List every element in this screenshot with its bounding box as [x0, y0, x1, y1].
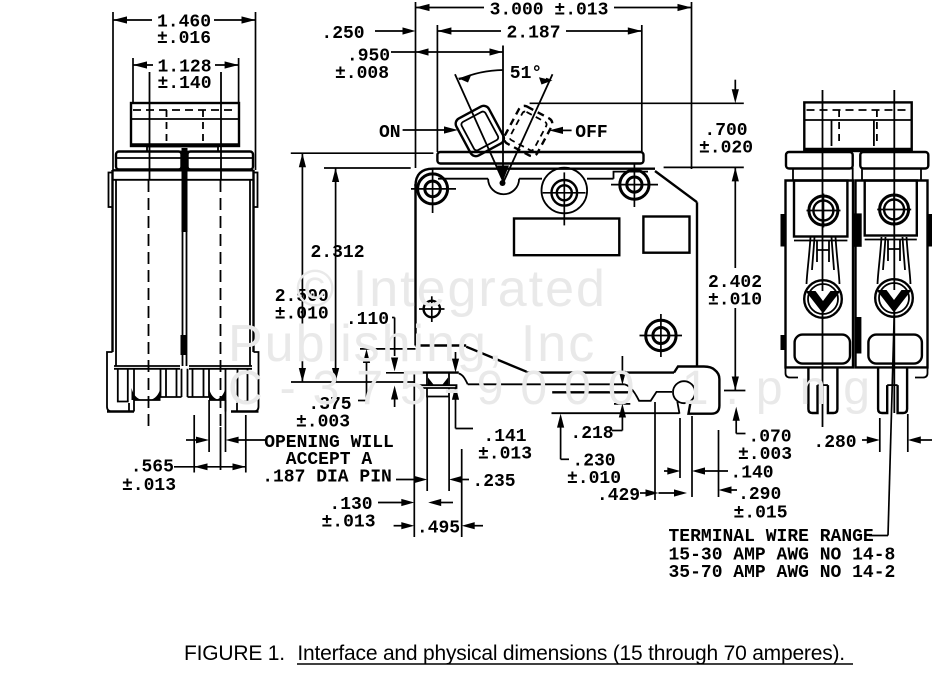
- body left wall: [414, 184, 416, 346]
- pole2 arch fillet left: [209, 388, 219, 400]
- terminal block pole2: [865, 181, 917, 236]
- center foot lower stem: [427, 388, 449, 397]
- nameplate rect left: [514, 219, 619, 256]
- 51 degree arc right: [546, 79, 551, 81]
- ref line cover top extended left: [291, 152, 434, 154]
- ref line toggle top extended right: [530, 102, 744, 104]
- dim .141 arrows at x455: [452, 359, 459, 373]
- svg-text:3.000 ±.013: 3.000 ±.013: [490, 1, 609, 21]
- handle pedestal: [147, 147, 218, 152]
- dim .280 extension lines: [879, 418, 881, 452]
- clamp triangle pole2: [877, 290, 912, 313]
- svg-text:±.015: ±.015: [733, 504, 787, 524]
- dim .565 line and arrows: [174, 466, 246, 468]
- foot stem extension lines: [426, 397, 428, 491]
- dim .070 leader: [733, 407, 740, 421]
- cover bar: [437, 152, 643, 164]
- shelf lines pole1: [114, 365, 180, 367]
- terminal leader line up to clamp: [888, 312, 894, 536]
- second cap pole1: [793, 169, 853, 181]
- bottom shelf left: [416, 344, 467, 346]
- side tab right upper: [928, 214, 932, 247]
- handle mid line: [804, 119, 911, 121]
- handle inner verticals: [831, 120, 833, 146]
- dim 1.460 extension line right: [255, 12, 257, 170]
- dim .110 lower arrow: [391, 386, 398, 400]
- shelf ref line extended left: [360, 348, 416, 350]
- svg-text:ON: ON: [379, 123, 401, 143]
- body top edge with rounded corner: [416, 169, 656, 186]
- center foot stem: [427, 374, 449, 386]
- dim .218 down arrow: [621, 356, 623, 372]
- flange right extension line down: [461, 449, 463, 537]
- svg-text:±.008: ±.008: [335, 64, 389, 84]
- pole1 outer prong inner wall: [133, 369, 135, 412]
- dim 1.460 extension line left: [112, 12, 114, 170]
- cap pole2 (right view): [860, 152, 928, 169]
- svg-text:.187 DIA PIN: .187 DIA PIN: [262, 468, 392, 488]
- lower nameplate pole1: [795, 335, 850, 364]
- pole2 outer prong inner wall: [225, 369, 227, 412]
- second cap pole2: [862, 169, 921, 181]
- caption underline: [297, 663, 853, 665]
- pole2 arch bottom line: [209, 399, 226, 401]
- dim 2.187 ext left: [436, 25, 438, 152]
- middle hole: [552, 180, 578, 206]
- outer wall step right: [237, 352, 259, 412]
- svg-text:±.013: ±.013: [321, 513, 375, 533]
- opening dim arrows: [186, 439, 197, 441]
- block bottom line pole1: [794, 240, 847, 242]
- center divider feet blob: [181, 335, 187, 355]
- cap pole1 (right view): [786, 152, 853, 169]
- line C: [552, 391, 632, 393]
- handle bottom thick line: [131, 143, 239, 146]
- centerline bottom arrowhead: [497, 166, 509, 182]
- rail hook outline: [674, 367, 719, 414]
- divider bar lower: [855, 317, 861, 354]
- toggle handle (left view): [131, 103, 239, 146]
- dashed verticals inside handle: [166, 110, 168, 146]
- dip right extension line: [654, 402, 656, 500]
- hook right extension: [718, 430, 720, 497]
- pole2 inner prong: [188, 369, 210, 397]
- pole1 inner prong: [161, 369, 182, 397]
- hook slot left extension: [679, 418, 681, 478]
- block bottom line pole2: [865, 239, 917, 241]
- svg-text:.218: .218: [570, 424, 613, 444]
- opening extension line right: [225, 400, 227, 452]
- body second line: [113, 179, 254, 181]
- side tab left lower: [781, 335, 786, 350]
- inner line step up right: [614, 172, 649, 179]
- centerline pole2 extension: [220, 427, 222, 470]
- dim .235 right arrow: [449, 476, 462, 483]
- rail top line A: [527, 371, 675, 373]
- right side tab: [254, 173, 258, 208]
- wire clamp funnel pole1: [807, 237, 840, 284]
- toggle notch semicircle: [488, 179, 519, 195]
- clamp triangle pole1: [806, 291, 841, 314]
- svg-text:±.020: ±.020: [699, 139, 753, 159]
- svg-text:±.003: ±.003: [296, 413, 350, 433]
- lower nameplate pole2: [868, 335, 922, 364]
- svg-text:±.140: ±.140: [157, 74, 211, 94]
- left ear hole: [418, 174, 448, 204]
- pole centerline right (right view): [893, 90, 895, 413]
- cap inner lines: [116, 157, 182, 159]
- svg-text:Interface and physical dimensi: Interface and physical dimensions (15 th…: [297, 642, 845, 665]
- 51 degree arc left: [459, 70, 503, 80]
- hook slot left edge: [677, 402, 679, 414]
- inner wall left: [115, 180, 117, 366]
- dim .375 arrow: [363, 349, 370, 363]
- handle dashed line: [133, 109, 237, 111]
- center foot flange: [420, 385, 457, 388]
- pole1 prong subrect: [118, 369, 128, 402]
- dashed centerline pole2: [220, 180, 222, 427]
- svg-text:2.187: 2.187: [506, 24, 560, 44]
- pole1 arch fillet left: [132, 388, 143, 400]
- svg-text:±.016: ±.016: [157, 29, 211, 49]
- ref line body top extended right: [664, 166, 744, 168]
- left side tab: [109, 173, 113, 208]
- pole1 arch bottom line: [134, 399, 161, 401]
- svg-text:.235: .235: [472, 472, 515, 492]
- screw pole1: [809, 196, 838, 225]
- dim .230 up arrow with leader: [557, 414, 564, 428]
- clamp screw slot pole2: [888, 239, 900, 261]
- dim 2.187 ext right: [641, 25, 643, 152]
- svg-text:51°: 51°: [510, 64, 542, 84]
- svg-text:±.003: ±.003: [738, 445, 792, 465]
- lower-left small hole: [424, 301, 440, 317]
- body right wall: [252, 170, 254, 352]
- body inner top line segment 3: [587, 178, 614, 180]
- right ear hole: [620, 170, 649, 199]
- dim line 1.460: [113, 19, 152, 21]
- handle mid line: [131, 118, 239, 120]
- toggle vertical centerline: [502, 46, 504, 181]
- body right wall: [696, 202, 698, 366]
- line D rail bottom lip: [552, 412, 680, 414]
- dim .218 up arrow with leader: [619, 404, 626, 418]
- svg-text:.250: .250: [321, 24, 364, 44]
- pivot dot: [500, 180, 506, 186]
- svg-text:±.010: ±.010: [708, 291, 762, 311]
- svg-text:FIGURE 1.: FIGURE 1.: [184, 642, 285, 665]
- pole2 prong subrect: [238, 369, 248, 402]
- left edge extension line down: [413, 374, 415, 537]
- svg-text:35-70 AMP AWG NO 14-2: 35-70 AMP AWG NO 14-2: [669, 563, 896, 583]
- center divider lines: [182, 232, 184, 366]
- terminal block pole1: [794, 181, 847, 237]
- handle dashed verticals: [838, 110, 840, 146]
- dim 2.500 vertical: [301, 153, 303, 382]
- dim 3.000 ext right: [691, 2, 693, 169]
- body left wall: [111, 170, 113, 352]
- OFF label and arrow: [549, 127, 563, 134]
- handle dashed line: [807, 109, 910, 111]
- foot pole1 (right view): [808, 367, 837, 413]
- dim 3.000 ext left (merges with body wall): [415, 2, 417, 168]
- svg-text:TERMINAL WIRE RANGE: TERMINAL WIRE RANGE: [669, 527, 874, 547]
- side tab left upper: [781, 214, 786, 247]
- foot pole2 notch bar: [887, 384, 897, 386]
- bottom ref tick for 2.402: [724, 390, 745, 392]
- toggle ON (solid): [454, 104, 506, 158]
- pole2 arch fillet right: [216, 388, 226, 400]
- S-curve from body bottom to line B: [459, 374, 468, 385]
- svg-text:.290: .290: [738, 485, 781, 505]
- hook slot right extension: [691, 416, 693, 497]
- opening extension line left: [208, 400, 210, 452]
- center divider filled: [182, 148, 188, 232]
- pole1 outer prong bottom: [107, 410, 134, 412]
- cap pole1: [116, 152, 182, 170]
- svg-text:±.013: ±.013: [122, 476, 176, 496]
- shelf diagonal to rail: [466, 347, 526, 372]
- handle (right view): [804, 102, 911, 151]
- pole1 arch fillet right: [150, 388, 161, 400]
- inner wall right: [249, 180, 251, 366]
- dim .700 up arrow / 2.402 vertical: [732, 167, 739, 181]
- body inner top line segment 1: [438, 178, 488, 180]
- dim .565 extension lines: [193, 415, 195, 473]
- terminal leader dash: [869, 535, 888, 537]
- handle bottom thick line: [804, 148, 911, 151]
- foot wedge marks: [428, 378, 434, 385]
- dim .290 arrow: [719, 486, 732, 493]
- lower-right hole: [646, 320, 676, 350]
- dim .700 down arrow: [734, 80, 736, 90]
- dim .141 leader and label: [456, 428, 474, 430]
- svg-text:±.013: ±.013: [478, 445, 532, 465]
- outer wall step left: [107, 352, 129, 412]
- ref line body top extended left: [324, 167, 411, 169]
- body outline pole2 (right view): [856, 181, 928, 368]
- cap pole2: [188, 152, 254, 170]
- pole centerline left (right view): [822, 90, 824, 427]
- hook pin circle: [673, 381, 695, 403]
- clamp screw slot pole1: [817, 240, 829, 262]
- toggle ON centerline: [455, 74, 504, 182]
- dim 2.312 vertical: [335, 168, 337, 382]
- dim .235 left arrow from PIN text: [396, 479, 415, 481]
- toggle OFF centerline: [504, 74, 553, 182]
- dim .495: [394, 525, 402, 527]
- foot pole1 notch bar: [818, 384, 828, 386]
- svg-text:.280: .280: [813, 433, 856, 453]
- wire clamp funnel pole2: [878, 237, 911, 284]
- svg-text:© Integrated: © Integrated: [296, 260, 607, 318]
- dim .140 arrows: [664, 470, 668, 472]
- solid centerline pole1: [149, 72, 151, 180]
- foot pole2 (right view): [878, 367, 907, 413]
- body bottom tick extended left: [386, 372, 408, 374]
- shelf lines pole2: [189, 365, 252, 367]
- dashed centerline pole1: [148, 180, 150, 427]
- pole2 outer prong bottom: [231, 410, 259, 412]
- svg-text:.565: .565: [131, 458, 174, 478]
- outer wall left below bottom: [786, 367, 799, 377]
- toggle OFF (dashed): [502, 104, 554, 158]
- solid centerline pole2: [220, 72, 222, 180]
- body inner top line segment 2: [519, 178, 542, 180]
- body bottom line left foot region: [415, 371, 459, 373]
- svg-text:.140: .140: [730, 464, 773, 484]
- arc arrowhead right: [539, 77, 553, 84]
- body top edge: [113, 169, 254, 171]
- dim line 1.128: [133, 64, 153, 66]
- tick under dip: [614, 403, 630, 405]
- dim line 3.000: [416, 7, 485, 9]
- svg-text:.495: .495: [417, 519, 460, 539]
- line B: [468, 383, 625, 385]
- svg-text:.429: .429: [597, 486, 640, 506]
- boss circle around middle hole: [542, 168, 588, 214]
- svg-text:C-375-9000 1.png: C-375-9000 1.png: [228, 362, 887, 415]
- line B S-curve into dip: [624, 384, 672, 401]
- svg-text:OFF: OFF: [575, 123, 607, 143]
- divider bar upper: [853, 213, 862, 246]
- dim 1.128 extension lines: [132, 58, 134, 103]
- nameplate rect right: [643, 217, 689, 253]
- outer wall right below bottom: [915, 367, 928, 377]
- dim line 2.187: [437, 30, 501, 32]
- screw pole2: [880, 195, 909, 224]
- right diagonal corner: [655, 171, 697, 202]
- arc arrowhead left: [458, 76, 472, 83]
- ref line bottom extended left: [291, 381, 414, 383]
- body outline pole1 (right view): [786, 181, 854, 368]
